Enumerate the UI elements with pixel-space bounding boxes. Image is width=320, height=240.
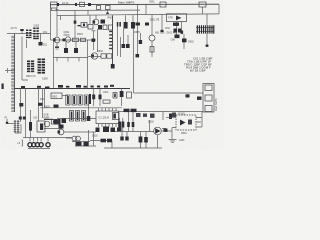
- label row right of IC: [124, 109, 137, 112]
- resistor R3 on bus: [80, 2, 85, 6]
- wire left stub y70: [5, 68, 15, 73]
- resistor R31: [101, 139, 107, 143]
- wire T2 left: [5, 117, 14, 124]
- diode D7: [181, 31, 195, 50]
- resistor R28 vertical: [127, 112, 130, 132]
- label D611: [150, 19, 160, 22]
- diode D4: [126, 35, 130, 48]
- wire x22 drop: [22, 37, 28, 81]
- svg-text:S901: S901: [149, 1, 155, 4]
- svg-text:GND: GND: [179, 139, 185, 142]
- capacitor bank row1 C20: [66, 95, 70, 105]
- resistor R10: [109, 25, 113, 30]
- svg-text:C63: C63: [33, 117, 38, 120]
- label Q2: [64, 31, 71, 37]
- wire comb drop: [206, 34, 209, 47]
- label bottom left col: [19, 117, 38, 120]
- capacitor C7: [55, 43, 59, 49]
- box top left label: [113, 113, 120, 120]
- wire right bus corner: [218, 4, 220, 14]
- wire vertical main left lower: [53, 40, 55, 89]
- transistor Q0: [93, 15, 99, 24]
- wire x44 drop: [44, 89, 46, 108]
- wire x163 drop: [162, 112, 164, 121]
- choke ring L1: [28, 138, 32, 149]
- resistor R27 vertical: [122, 118, 125, 132]
- wire x88 link: [87, 10, 89, 15]
- shunt reg U5 TL431: [148, 120, 161, 135]
- label right of opto: [181, 132, 187, 135]
- label POWER: [11, 27, 18, 30]
- wire bottom rail right: [122, 147, 162, 149]
- wire x57 drop: [56, 11, 58, 38]
- wire x25 drop long: [25, 89, 27, 138]
- wire x93 drop: [92, 31, 96, 51]
- transistor Q4: [149, 15, 155, 57]
- capacitor C4: [20, 29, 23, 34]
- label mid left column: [38, 98, 45, 106]
- wire x88 x93 drops: [89, 130, 94, 146]
- resistor R12: [101, 54, 106, 58]
- svg-text:R604 C6: R604 C6: [26, 75, 36, 78]
- capacitor C1: [97, 6, 101, 10]
- diode D12 thick: [29, 110, 32, 138]
- transistor Q6: [58, 129, 97, 135]
- wire Q1 drain rail: [51, 39, 97, 41]
- diode D1 cluster: [88, 20, 107, 30]
- resistor R30: [52, 120, 59, 125]
- resistor R21: [103, 91, 110, 103]
- zener ladder x112: [109, 15, 114, 68]
- choke ring L2: [32, 138, 36, 147]
- wire x117 drop: [117, 27, 119, 57]
- diode box D13: [37, 121, 45, 132]
- controller U2 box: [167, 14, 187, 22]
- resistor R29 vertical: [132, 112, 135, 132]
- label RA below: [26, 75, 36, 78]
- transistor Q1: [53, 37, 60, 43]
- svg-text:STR: STR: [168, 17, 173, 20]
- svg-text:Q602: Q602: [97, 50, 104, 53]
- resistor R7: [73, 38, 79, 41]
- wire tl431 rail: [115, 131, 154, 133]
- wire tl431 bottom: [157, 135, 159, 148]
- regulator box U3: [51, 93, 68, 99]
- wire top bus: [50, 3, 219, 6]
- transistor Q3: [88, 53, 101, 59]
- wire x97 drop: [97, 29, 99, 52]
- svg-text:R603: R603: [77, 33, 83, 36]
- label Main SMPS: [118, 0, 134, 4]
- long vertical to connector: [133, 29, 135, 94]
- resistor network RN1: [26, 30, 32, 39]
- resistor R13: [107, 54, 112, 58]
- resistor R8: [77, 33, 86, 42]
- resistor R35 vertical left of opto: [166, 114, 176, 120]
- fuse F2: [199, 2, 207, 25]
- capacitor C15: [171, 35, 180, 42]
- resistor R15: [150, 47, 154, 53]
- capacitor C30: [19, 103, 23, 107]
- resistor R20: [89, 94, 91, 104]
- wire x26 short drop: [26, 39, 28, 48]
- resistor R22: [127, 92, 132, 98]
- label U2 pins: [166, 27, 171, 30]
- capacitor C2: [106, 6, 111, 15]
- label Q3: [97, 50, 104, 53]
- choke ring L4: [39, 138, 43, 147]
- wire y57 rail: [54, 58, 89, 62]
- wire mid rail: [40, 107, 122, 109]
- transistor Q2: [63, 37, 71, 42]
- switch S1: [146, 2, 166, 15]
- notes text block: [184, 57, 213, 73]
- resistor block RA: [27, 61, 34, 73]
- optocoupler U6: [176, 113, 196, 131]
- label connector vertical: [215, 98, 218, 111]
- label F601: [43, 31, 48, 34]
- diode D14: [59, 125, 64, 129]
- svg-text:Main SMPS: Main SMPS: [215, 98, 218, 111]
- capacitor bank row2 C25: [70, 111, 74, 122]
- capacitor bank row1 C21: [72, 95, 76, 105]
- svg-text:F2 4A: F2 4A: [62, 2, 69, 5]
- connector J2 comb: [196, 25, 214, 33]
- wire x60 tick: [60, 15, 62, 20]
- component cluster bottom mid: [76, 142, 89, 146]
- wire opto left low: [172, 128, 176, 140]
- resistor R34: [144, 132, 148, 149]
- svg-text:D611 R5: D611 R5: [150, 19, 160, 22]
- resistor network RN2: [33, 28, 39, 40]
- components on lower label row: [136, 113, 176, 118]
- label mid cluster: [155, 30, 165, 35]
- fuse F1 box: [51, 2, 59, 11]
- diode D11: [99, 89, 102, 107]
- wire bottom mid rail: [90, 141, 122, 149]
- wire IC to connector: [119, 111, 204, 113]
- label relay: [66, 137, 72, 140]
- resistor R17: [173, 22, 179, 39]
- svg-text:R62: R62: [166, 27, 171, 30]
- svg-text:IC L29LM: IC L29LM: [99, 117, 109, 120]
- svg-text:RL61: RL61: [66, 137, 72, 140]
- diode D0: [39, 34, 48, 47]
- wire vertical main left upper: [50, 5, 52, 40]
- wire under rings: [28, 148, 50, 150]
- label mid rail: [44, 105, 59, 109]
- diode D2: [92, 39, 96, 42]
- wire x122 x127 drops: [120, 132, 128, 141]
- capacitor C13: [131, 15, 135, 28]
- wire left feed: [7, 33, 51, 35]
- svg-text:C605: C605: [34, 25, 40, 28]
- bracket label: [18, 140, 23, 146]
- wire y93 to connector: [134, 92, 204, 94]
- capacitor C11 bars: [117, 22, 121, 27]
- capacitor bank row1 C22: [78, 95, 82, 105]
- svg-text:Z61: Z61: [43, 44, 48, 47]
- components below IC: [96, 127, 122, 133]
- blob on y93 wire: [186, 94, 190, 97]
- svg-text:R640: R640: [181, 132, 187, 135]
- transistor Q5: [44, 121, 62, 128]
- label GND bottom: [179, 139, 185, 142]
- label mid cluster2: [167, 31, 177, 34]
- wire bottom bus primary: [15, 88, 131, 90]
- blob on connector wire: [197, 97, 202, 100]
- svg-text:R60: R60: [108, 17, 113, 20]
- label small top right: [149, 1, 155, 4]
- capacitor bank row1 C23: [84, 95, 88, 105]
- resistor R23: [113, 93, 117, 99]
- svg-text:F61: F61: [43, 31, 48, 34]
- label ticks above bus: [91, 86, 109, 88]
- optocoupler small PC2: [72, 136, 80, 141]
- small transformer T2: [14, 120, 20, 133]
- connector J3: [203, 84, 214, 113]
- resistor R32: [107, 139, 112, 143]
- wire opto right: [196, 112, 202, 127]
- wire x90 drop: [89, 15, 91, 24]
- label 12V block: [44, 114, 54, 120]
- wire bottom rail left: [23, 137, 72, 139]
- capacitor C8: [64, 40, 68, 53]
- wire row2 bottom rail: [57, 118, 96, 120]
- node bus ticks: [57, 3, 91, 6]
- svg-text:BV 2B C/BF: BV 2B C/BF: [190, 68, 206, 72]
- label mid top: [134, 31, 140, 34]
- svg-text:PC601: PC601: [178, 113, 186, 116]
- node cluster x137: [136, 23, 150, 26]
- transformer T1 primary winding: [11, 34, 14, 113]
- capacitor bank row2 C27: [82, 111, 86, 122]
- capacitor C24: [120, 89, 124, 107]
- ground opto: [169, 140, 177, 143]
- capacitor bank row2 C26: [76, 111, 80, 122]
- diode D3: [122, 29, 126, 49]
- wire x38 x42 verticals: [39, 89, 43, 122]
- diode D10: [92, 89, 95, 107]
- label below IC: [92, 135, 98, 138]
- wire x20 vertical: [20, 89, 22, 123]
- choke ring L5: [46, 138, 50, 147]
- wire T2 bottom: [15, 124, 21, 133]
- capacitor C9: [74, 42, 78, 53]
- svg-text:REG: REG: [52, 95, 57, 98]
- label x108: [108, 17, 113, 20]
- svg-text:D628: D628: [148, 121, 154, 124]
- svg-text:D605: D605: [134, 31, 140, 34]
- svg-text:C620: C620: [92, 135, 98, 138]
- resistor R26 vertical: [118, 118, 121, 132]
- wire x120 drop: [120, 37, 122, 57]
- wire tl431 out: [162, 129, 172, 132]
- wire x75 tick: [74, 16, 77, 24]
- svg-text:C66: C66: [171, 39, 176, 42]
- wire lower rails: [72, 142, 96, 147]
- label RB below: [42, 78, 48, 81]
- wire second bus: [51, 9, 141, 11]
- wire x162 drop: [161, 14, 163, 30]
- svg-text:Main SMPS: Main SMPS: [118, 0, 134, 4]
- svg-text:D61: D61: [40, 98, 45, 101]
- wire third bus: [57, 14, 219, 16]
- IC U4: [96, 108, 119, 127]
- diode D5: [139, 33, 142, 44]
- choke ring L3: [35, 138, 39, 147]
- svg-text:L602: L602: [103, 91, 109, 94]
- wire x137 drop: [136, 5, 140, 58]
- resistor block RB: [38, 59, 46, 74]
- svg-text:2SC5: 2SC5: [64, 34, 71, 37]
- svg-text:D626: D626: [44, 105, 50, 108]
- resistor R33: [139, 132, 143, 149]
- node left edge mark: [2, 84, 4, 90]
- label ticks above bus extra: [66, 85, 114, 88]
- label bus text1: [62, 2, 69, 5]
- svg-text:AC IN: AC IN: [11, 27, 18, 30]
- label RN2 top: [34, 25, 40, 28]
- resistor R5 cluster: [78, 23, 88, 28]
- svg-text:C609: C609: [42, 78, 48, 81]
- capacitor C12: [124, 15, 128, 28]
- dark block bottom left: [54, 118, 67, 125]
- resistor R24: [87, 104, 91, 121]
- svg-text:D902: D902: [188, 41, 194, 44]
- wire x75 bus drop: [74, 11, 76, 40]
- node bus ticks2: [21, 85, 81, 89]
- svg-text:R61 C62: R61 C62: [155, 31, 165, 34]
- diode D6: [174, 22, 182, 34]
- wire x87 drop: [87, 40, 89, 89]
